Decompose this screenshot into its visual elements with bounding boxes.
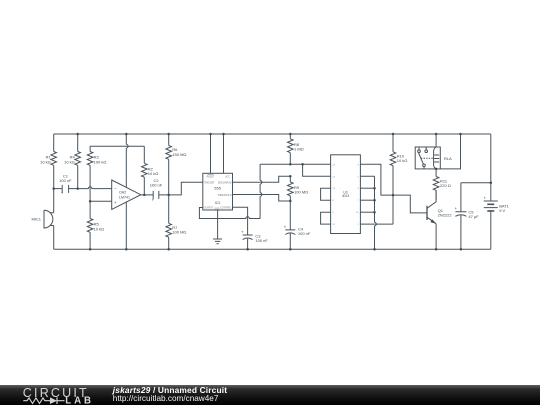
- wire C3 bottom: [247, 239, 249, 250]
- svg-text:LAB: LAB: [65, 395, 94, 405]
- wire discharge to R9 top: [233, 176, 291, 182]
- relay RLA: [415, 147, 452, 169]
- wire 555 output net: [199, 164, 330, 218]
- resistor R1: [40, 152, 56, 166]
- svg-text:+: +: [61, 191, 64, 196]
- svg-text:14: 14: [332, 164, 335, 166]
- svg-text:100 nF: 100 nF: [298, 231, 311, 236]
- wire threshold to R9 bottom: [233, 195, 291, 202]
- svg-text:9 V: 9 V: [499, 208, 505, 213]
- wire base wire: [393, 195, 427, 213]
- svg-text:100 nF: 100 nF: [150, 183, 163, 188]
- svg-text:RLA: RLA: [444, 156, 452, 161]
- wire relay contact to rail: [440, 134, 460, 169]
- wire noninverting input: [90, 200, 112, 202]
- svg-text:2: 2: [357, 176, 359, 178]
- svg-text:OUTPUT: OUTPUT: [204, 208, 214, 210]
- svg-text:4013: 4013: [342, 194, 350, 198]
- wire top rail: [54, 133, 491, 135]
- wire control to C3: [233, 207, 248, 235]
- svg-text:LM741: LM741: [119, 195, 130, 199]
- svg-text:4: 4: [357, 188, 359, 190]
- wire relay coil top: [435, 134, 437, 147]
- node rail dots: [76, 133, 79, 136]
- wire R3 top to feedback: [90, 146, 144, 163]
- svg-text:THRESHOLD: THRESHOLD: [217, 195, 232, 197]
- svg-text:VCC: VCC: [225, 177, 230, 179]
- resistor R6: [166, 146, 187, 160]
- ground: [213, 239, 222, 244]
- resistor R5: [87, 219, 104, 233]
- url text: [113, 394, 219, 403]
- svg-text:220 Ω: 220 Ω: [440, 183, 451, 188]
- wire counter pin3R: [360, 187, 374, 189]
- svg-text:100 MΩ: 100 MΩ: [294, 190, 308, 195]
- svg-text:47 µF: 47 µF: [468, 214, 479, 219]
- wire R3 bottom to node B: [89, 165, 91, 201]
- wire R4 branch: [77, 134, 79, 189]
- svg-text:OA2: OA2: [119, 190, 126, 194]
- svg-text:1 MΩ: 1 MΩ: [294, 147, 304, 152]
- svg-text:IC2: IC2: [215, 201, 221, 205]
- wire op-amp output to C2: [141, 194, 169, 196]
- svg-text:10 kΩ: 10 kΩ: [40, 159, 51, 164]
- wire 555 gnd stem: [217, 210, 219, 239]
- svg-text:10 kΩ: 10 kΩ: [64, 159, 75, 164]
- svg-text:100 kΩ: 100 kΩ: [94, 159, 107, 164]
- resistor R3: [87, 152, 106, 166]
- 555 timer IC2: [203, 173, 233, 210]
- svg-text:3: 3: [357, 164, 359, 166]
- svg-text:TRIGGER: TRIGGER: [204, 183, 215, 185]
- svg-text:10 kΩ: 10 kΩ: [148, 171, 159, 176]
- svg-text:100 MΩ: 100 MΩ: [172, 230, 186, 235]
- wire counter pin1R to R10 node: [360, 164, 393, 195]
- wire 555 vcc to rail: [223, 134, 225, 173]
- wire op-amp V+: [126, 134, 128, 187]
- svg-text:MIC1: MIC1: [31, 216, 41, 221]
- svg-text:+: +: [484, 196, 487, 201]
- wire C4 branch: [289, 201, 291, 249]
- wire counter pins 3-4 loop: [321, 188, 331, 200]
- op-amp OA2: [112, 180, 141, 209]
- wire battery bottom: [490, 211, 492, 249]
- svg-text:12: 12: [332, 224, 335, 226]
- resistor R2: [142, 163, 159, 177]
- footer bar: [0, 385, 540, 405]
- resistor R10: [390, 152, 407, 166]
- svg-text:+: +: [152, 198, 155, 203]
- svg-text:100 nF: 100 nF: [59, 178, 72, 183]
- wire counter right bus: [360, 176, 376, 249]
- resistor R8: [287, 139, 303, 153]
- svg-text:1: 1: [357, 224, 359, 226]
- svg-text:150 MΩ: 150 MΩ: [172, 152, 186, 157]
- wire R6 branch: [168, 134, 170, 195]
- svg-text:15: 15: [332, 188, 335, 190]
- svg-text:+: +: [284, 225, 287, 230]
- svg-text:+: +: [241, 230, 244, 235]
- microphone MIC1: [31, 210, 53, 228]
- svg-text:8: 8: [332, 200, 334, 202]
- capacitor C5: [455, 206, 480, 219]
- wire counter pins 5-6 loop: [321, 212, 331, 224]
- wire R10 branch: [392, 134, 394, 195]
- svg-text:7: 7: [357, 200, 359, 202]
- svg-text:CONTROL: CONTROL: [220, 208, 232, 210]
- svg-text:4: 4: [332, 212, 334, 214]
- wire mic/R1 left branch: [53, 134, 55, 249]
- wire bottom rail: [54, 248, 491, 250]
- svg-text:+: +: [114, 200, 117, 205]
- svg-text:RESET: RESET: [207, 177, 215, 179]
- wire R2 bottom: [143, 177, 145, 195]
- capacitor C4: [284, 225, 311, 237]
- wire R11 stubs: [435, 169, 437, 200]
- wire emitter to rail: [435, 224, 437, 250]
- wire op-amp V-: [125, 202, 127, 249]
- svg-text:GND: GND: [214, 209, 219, 211]
- capacitor C3: [241, 230, 268, 244]
- wire R5 stubs: [89, 201, 91, 249]
- wire C5 branch: [461, 183, 491, 250]
- wire counter pin6R: [360, 195, 393, 224]
- wire inverting input: [54, 187, 112, 189]
- svg-text:100 nF: 100 nF: [255, 238, 268, 243]
- wire counter pin5R: [360, 211, 374, 213]
- svg-text:555: 555: [214, 185, 221, 190]
- resistor R7: [166, 223, 187, 237]
- resistor R9: [287, 182, 308, 196]
- transistor Q1: [427, 190, 452, 223]
- counter IC U3 4017: [331, 155, 361, 234]
- resistor R11: [433, 177, 450, 191]
- svg-text:10 kΩ: 10 kΩ: [397, 158, 408, 163]
- title text: [113, 385, 227, 395]
- svg-text:−: −: [114, 186, 117, 191]
- svg-text:13: 13: [332, 176, 335, 178]
- svg-text:DISCHARGE: DISCHARGE: [218, 182, 232, 185]
- wire R8 branch: [289, 134, 291, 164]
- svg-text:10: 10: [356, 212, 359, 214]
- node ground rail dots: [89, 248, 92, 251]
- wire R7 branch: [168, 195, 170, 249]
- svg-text:+: +: [455, 206, 458, 211]
- wire counter pin2 feed: [303, 164, 331, 176]
- capacitor C2: [150, 178, 163, 203]
- svg-text:10 kΩ: 10 kΩ: [94, 226, 105, 231]
- wire R9 stubs: [289, 176, 291, 201]
- wire C2 to trigger: [169, 182, 203, 195]
- wire 555 reset to rail: [210, 134, 212, 173]
- capacitor C1: [59, 174, 72, 196]
- battery BAT1: [484, 196, 510, 214]
- wire battery top: [490, 134, 492, 201]
- svg-text:2N2222: 2N2222: [438, 213, 453, 218]
- wire counter pin4R: [360, 199, 374, 201]
- CircuitLab logo: [0, 385, 110, 405]
- node junction dots: [52, 187, 55, 190]
- resistor R4: [64, 152, 80, 166]
